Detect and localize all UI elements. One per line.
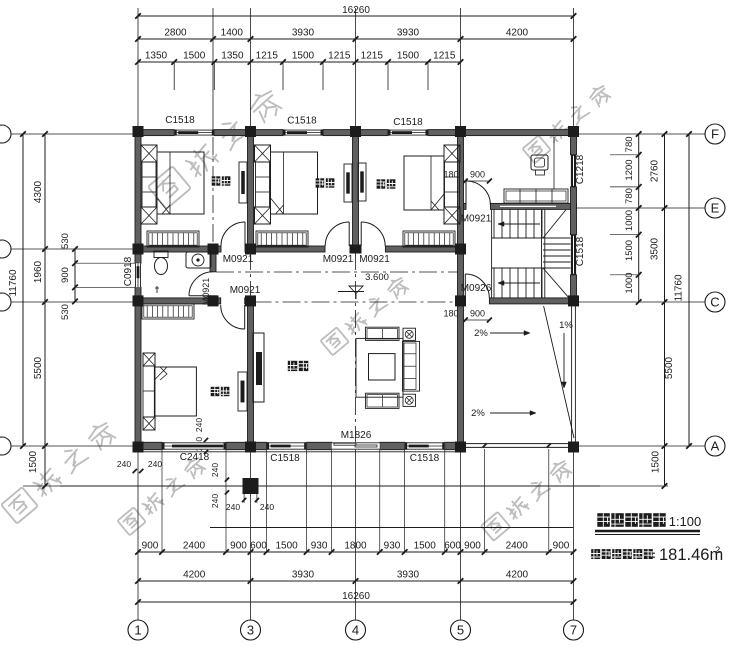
svg-text:930: 930	[384, 541, 401, 552]
svg-text:900: 900	[230, 541, 247, 552]
svg-text:1500: 1500	[183, 51, 206, 62]
svg-text:7: 7	[570, 623, 577, 638]
svg-text:1%: 1%	[559, 320, 573, 331]
svg-text:2400: 2400	[183, 541, 206, 552]
svg-text:530: 530	[60, 304, 71, 320]
svg-text:C2418: C2418	[180, 452, 210, 463]
svg-text:5500: 5500	[33, 356, 44, 379]
svg-text:1: 1	[134, 623, 141, 638]
svg-text::: :	[652, 549, 656, 561]
svg-text:530: 530	[60, 233, 71, 249]
svg-text:1500: 1500	[651, 450, 662, 473]
svg-text:4200: 4200	[183, 570, 206, 581]
svg-text:M0921: M0921	[461, 214, 492, 225]
svg-text:M0921: M0921	[223, 254, 254, 265]
svg-text:A: A	[711, 439, 720, 454]
svg-text:C1518: C1518	[410, 453, 440, 464]
svg-text:1500: 1500	[624, 240, 635, 261]
svg-text:240: 240	[210, 463, 220, 477]
svg-text:240: 240	[117, 459, 131, 469]
svg-text:C0918: C0918	[123, 256, 134, 286]
svg-text:1500: 1500	[28, 450, 39, 473]
svg-text:1000: 1000	[624, 272, 635, 293]
svg-text:C1518: C1518	[287, 116, 317, 127]
svg-text:M0921: M0921	[359, 254, 390, 265]
svg-text:C1518: C1518	[575, 236, 586, 266]
svg-text:1215: 1215	[361, 51, 384, 62]
svg-text:5: 5	[457, 623, 464, 638]
svg-text:1215: 1215	[328, 51, 351, 62]
svg-text:180: 180	[443, 309, 458, 319]
svg-text:3930: 3930	[397, 28, 420, 39]
svg-text:900: 900	[142, 541, 159, 552]
svg-text:4200: 4200	[506, 570, 529, 581]
svg-text:16260: 16260	[342, 5, 370, 16]
svg-text:1500: 1500	[275, 541, 298, 552]
svg-text:1800: 1800	[344, 541, 367, 552]
svg-text:1500: 1500	[397, 51, 420, 62]
svg-text:780: 780	[624, 136, 635, 152]
svg-text:1350: 1350	[221, 51, 244, 62]
svg-text:1960: 1960	[33, 260, 44, 283]
svg-text:11760: 11760	[8, 269, 19, 297]
svg-text:2760: 2760	[650, 159, 661, 182]
svg-text:C1518: C1518	[165, 115, 195, 126]
svg-text:2800: 2800	[164, 28, 187, 39]
svg-text:780: 780	[624, 188, 635, 204]
svg-text:2%: 2%	[474, 328, 488, 339]
svg-text:1:100: 1:100	[669, 514, 702, 529]
svg-text:M0921: M0921	[201, 278, 211, 306]
svg-text:4: 4	[352, 623, 359, 638]
svg-text:2: 2	[715, 545, 720, 556]
svg-text:600: 600	[444, 541, 461, 552]
svg-text:3: 3	[247, 623, 254, 638]
svg-text:1350: 1350	[145, 51, 168, 62]
svg-text:240: 240	[194, 418, 204, 432]
svg-text:900: 900	[470, 170, 485, 180]
svg-text:900: 900	[553, 541, 570, 552]
svg-text:900: 900	[470, 309, 485, 319]
svg-text:180: 180	[443, 170, 458, 180]
svg-text:930: 930	[311, 541, 328, 552]
svg-text:1200: 1200	[624, 159, 635, 180]
svg-text:181.46m: 181.46m	[659, 546, 723, 564]
svg-text:C1518: C1518	[270, 453, 300, 464]
svg-text:3930: 3930	[292, 28, 315, 39]
svg-text:M0921: M0921	[230, 285, 261, 296]
svg-text:3.600: 3.600	[365, 272, 389, 283]
svg-text:900: 900	[60, 267, 71, 283]
svg-text:4200: 4200	[506, 28, 529, 39]
svg-text:1215: 1215	[256, 51, 279, 62]
svg-text:C1218: C1218	[575, 154, 586, 184]
svg-text:1400: 1400	[221, 28, 244, 39]
svg-text:3500: 3500	[650, 237, 661, 260]
svg-text:900: 900	[464, 541, 481, 552]
svg-text:1000: 1000	[624, 210, 635, 231]
svg-text:240: 240	[260, 502, 274, 512]
svg-text:3930: 3930	[397, 570, 420, 581]
svg-text:1500: 1500	[414, 541, 437, 552]
svg-text:E: E	[711, 201, 720, 216]
svg-text:240: 240	[226, 502, 240, 512]
svg-text:240: 240	[148, 459, 162, 469]
svg-text:600: 600	[250, 541, 267, 552]
svg-text:11760: 11760	[674, 274, 685, 302]
svg-text:240: 240	[210, 494, 220, 508]
svg-text:1215: 1215	[433, 51, 456, 62]
svg-text:3930: 3930	[292, 570, 315, 581]
svg-text:M0926: M0926	[461, 283, 492, 294]
svg-text:C1518: C1518	[393, 117, 423, 128]
svg-text:2400: 2400	[506, 541, 529, 552]
svg-text:F: F	[711, 127, 719, 142]
svg-text:16260: 16260	[342, 591, 370, 602]
svg-text:M1826: M1826	[341, 430, 372, 441]
svg-text:2%: 2%	[471, 408, 485, 419]
svg-text:1500: 1500	[292, 51, 315, 62]
svg-text:M0921: M0921	[323, 254, 354, 265]
svg-text:4300: 4300	[33, 180, 44, 203]
svg-text:C: C	[710, 295, 719, 310]
svg-text:5500: 5500	[664, 356, 675, 379]
